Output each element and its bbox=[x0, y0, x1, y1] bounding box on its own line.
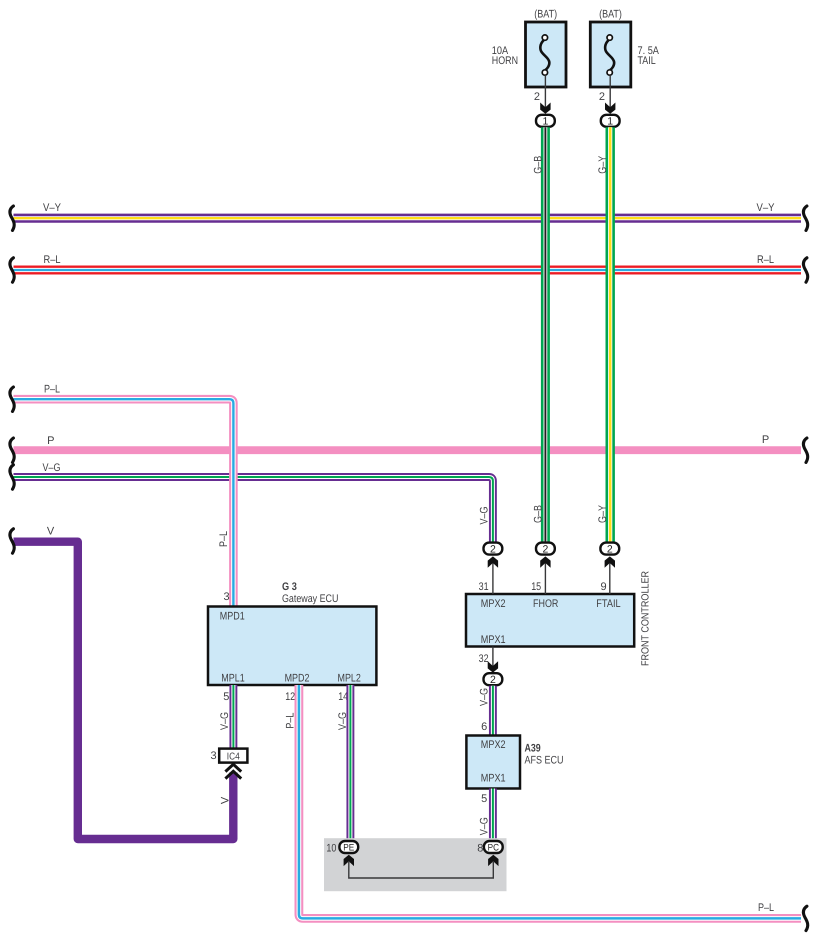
svg-text:TAIL: TAIL bbox=[638, 55, 656, 67]
wire V-G AFS MPX1 to PC bbox=[489, 789, 497, 841]
shield component IC4 bbox=[219, 749, 247, 763]
brace left of P-L bbox=[10, 387, 14, 411]
brace left of V-Y bbox=[10, 206, 14, 230]
wire V thick: from left brace, down, along bottom, up to IC4 shield bbox=[14, 542, 234, 839]
arrow into PC bbox=[488, 855, 498, 866]
shield ground block bbox=[324, 838, 507, 891]
svg-text:1: 1 bbox=[542, 116, 548, 128]
wire fuse HORN to connector bbox=[544, 75, 546, 109]
svg-text:MPX2: MPX2 bbox=[481, 598, 506, 610]
svg-text:P: P bbox=[47, 435, 54, 447]
svg-text:MPX1: MPX1 bbox=[481, 773, 506, 785]
svg-text:2: 2 bbox=[542, 543, 548, 555]
node PC bbox=[484, 841, 503, 854]
svg-text:2: 2 bbox=[607, 543, 613, 555]
svg-text:31: 31 bbox=[479, 581, 489, 593]
bus wire V-Y horizontal bbox=[14, 214, 802, 223]
bus wire V-G horizontal, turns down to connector 2 of front controller bbox=[14, 477, 493, 542]
svg-text:MPX1: MPX1 bbox=[481, 634, 506, 646]
svg-text:V–G: V–G bbox=[219, 712, 231, 730]
svg-text:P–L: P–L bbox=[284, 713, 296, 729]
svg-text:2: 2 bbox=[534, 91, 540, 103]
connector 2 between front controller and AFS ECU bbox=[484, 673, 503, 686]
connector 2 above pin 15 bbox=[536, 543, 555, 556]
svg-text:G 3: G 3 bbox=[282, 581, 297, 593]
svg-text:FHOR: FHOR bbox=[533, 598, 558, 610]
svg-text:5: 5 bbox=[223, 691, 229, 703]
svg-text:V–G: V–G bbox=[43, 462, 61, 474]
svg-text:A39: A39 bbox=[525, 743, 541, 755]
wire pin9 to connector 2 bbox=[609, 558, 611, 594]
wire P-L top: from left brace, turns down into gateway ECU pin 3 bbox=[14, 399, 234, 606]
svg-text:G–B: G–B bbox=[532, 156, 544, 174]
svg-text:P–L: P–L bbox=[218, 531, 230, 547]
svg-text:P: P bbox=[762, 434, 769, 446]
brace left of V bbox=[10, 529, 14, 553]
wire V-G connector2 to AFS MPX2 bbox=[489, 686, 497, 736]
svg-text:3: 3 bbox=[223, 591, 229, 603]
svg-text:5: 5 bbox=[481, 793, 487, 805]
svg-text:(BAT): (BAT) bbox=[534, 9, 557, 21]
svg-text:MPD1: MPD1 bbox=[220, 611, 245, 623]
wire P-L from MPD2 to bottom right brace bbox=[299, 685, 801, 918]
svg-text:V–Y: V–Y bbox=[43, 202, 62, 214]
svg-text:AFS ECU: AFS ECU bbox=[525, 755, 564, 767]
wire linking PE and PC inside shield block bbox=[349, 861, 494, 878]
brace right of R-L bbox=[803, 258, 807, 282]
bus wire P horizontal bbox=[14, 446, 802, 454]
svg-text:PC: PC bbox=[488, 843, 499, 854]
svg-text:2: 2 bbox=[599, 91, 605, 103]
svg-text:10: 10 bbox=[326, 843, 336, 855]
svg-text:9: 9 bbox=[600, 581, 606, 593]
brace right of bottom P-L bbox=[803, 906, 807, 930]
node PE bbox=[339, 841, 358, 854]
svg-text:6: 6 bbox=[481, 721, 487, 733]
wire fuse TAIL to connector bbox=[609, 75, 611, 109]
gateway ECU G3 bbox=[208, 607, 376, 686]
svg-text:G–B: G–B bbox=[532, 505, 544, 523]
front controller box bbox=[466, 594, 634, 647]
svg-text:V–G: V–G bbox=[337, 712, 349, 730]
svg-text:1: 1 bbox=[607, 116, 613, 128]
svg-text:V: V bbox=[219, 796, 231, 804]
svg-text:MPD2: MPD2 bbox=[285, 673, 310, 685]
svg-text:V–Y: V–Y bbox=[757, 202, 776, 214]
svg-text:R–L: R–L bbox=[44, 254, 61, 266]
svg-text:8: 8 bbox=[477, 843, 483, 855]
svg-text:2: 2 bbox=[490, 543, 496, 555]
svg-text:FTAIL: FTAIL bbox=[596, 598, 620, 610]
brace right of V-Y bbox=[803, 206, 807, 230]
wire pin31 to connector 2 bbox=[492, 558, 494, 594]
svg-text:2: 2 bbox=[490, 674, 496, 686]
brace right of P bbox=[803, 438, 807, 462]
svg-text:(BAT): (BAT) bbox=[599, 9, 622, 21]
brace left of P bbox=[10, 438, 14, 462]
svg-text:Gateway ECU: Gateway ECU bbox=[282, 593, 338, 605]
svg-text:G–Y: G–Y bbox=[597, 504, 609, 523]
svg-text:V–G: V–G bbox=[479, 507, 491, 525]
svg-text:P–L: P–L bbox=[758, 902, 774, 914]
svg-text:3: 3 bbox=[210, 750, 216, 762]
wire V-G from MPL1 to IC4 bbox=[229, 685, 237, 749]
svg-text:P–L: P–L bbox=[44, 384, 60, 396]
arrow into PE bbox=[344, 855, 354, 866]
svg-text:MPX2: MPX2 bbox=[481, 739, 506, 751]
svg-text:G–Y: G–Y bbox=[597, 155, 609, 174]
bus wire R-L horizontal bbox=[14, 266, 802, 275]
svg-text:R–L: R–L bbox=[757, 254, 774, 266]
svg-text:PE: PE bbox=[343, 843, 354, 854]
svg-text:15: 15 bbox=[531, 581, 541, 593]
connector 1 under fuse TAIL bbox=[601, 115, 620, 128]
shield chevrons under IC4 bbox=[225, 764, 241, 778]
svg-text:V–G: V–G bbox=[479, 688, 491, 706]
wire G-Y vertical bbox=[606, 127, 615, 542]
connector 1 under fuse HORN bbox=[536, 115, 555, 128]
fuse 7.5A TAIL bbox=[590, 22, 631, 87]
svg-text:32: 32 bbox=[479, 653, 489, 665]
svg-text:FRONT CONTROLLER: FRONT CONTROLLER bbox=[640, 571, 651, 666]
svg-text:IC4: IC4 bbox=[227, 752, 240, 763]
svg-text:12: 12 bbox=[285, 691, 295, 703]
connector 2 above pin 31 bbox=[484, 543, 503, 556]
connector 2 above pin 9 bbox=[600, 543, 619, 556]
AFS ECU A39 box bbox=[466, 736, 520, 789]
wire G-B vertical bbox=[541, 127, 550, 542]
brace left of R-L bbox=[10, 258, 14, 282]
svg-text:V–G: V–G bbox=[479, 817, 491, 835]
wire V-G from MPL2 to PE bbox=[346, 685, 354, 841]
brace left of V-G bbox=[10, 465, 14, 489]
svg-text:MPL1: MPL1 bbox=[221, 673, 244, 685]
svg-text:HORN: HORN bbox=[492, 55, 518, 67]
svg-text:MPL2: MPL2 bbox=[338, 673, 361, 685]
wire pin15 to connector 2 bbox=[544, 558, 546, 594]
fuse 10A HORN bbox=[526, 22, 567, 87]
wire pin32 to connector 2 below bbox=[492, 647, 494, 669]
svg-text:V: V bbox=[47, 526, 55, 538]
